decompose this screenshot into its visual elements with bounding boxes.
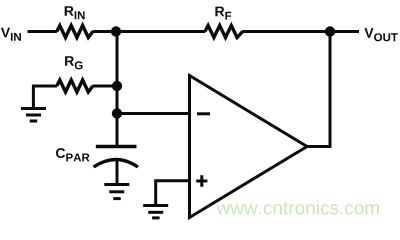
label R_F xyxy=(215,7,231,20)
wire R_G left lead and drop to ground xyxy=(33,86,57,108)
node B xyxy=(325,26,335,36)
label C_PAR xyxy=(56,148,90,161)
wire node D to op-amp inverting input xyxy=(117,112,190,115)
watermark www.cntronics.com xyxy=(217,201,379,215)
ground (below C_PAR) xyxy=(104,185,129,199)
node A xyxy=(111,26,121,36)
wire R_G to node C xyxy=(93,85,119,88)
wire capacitor to ground xyxy=(116,159,119,185)
wire V_IN to R_IN xyxy=(28,30,58,33)
wire R_F to node B xyxy=(242,30,330,33)
label R_IN xyxy=(65,6,85,19)
wire non-inverting input to ground xyxy=(156,181,190,205)
wire op-amp output to node B xyxy=(306,32,330,147)
ground (non-inverting input) xyxy=(143,206,168,218)
wire vertical node A down to capacitor xyxy=(116,32,119,147)
op-amp U1 xyxy=(190,76,308,218)
label V_IN xyxy=(1,28,21,41)
capacitor C_PAR xyxy=(94,147,138,168)
resistor R_F xyxy=(205,26,243,38)
label R_G xyxy=(65,56,82,69)
label V_OUT xyxy=(364,28,397,41)
resistor R_G xyxy=(57,80,93,92)
wire node A to R_F xyxy=(117,30,205,33)
node C (R_G junction) xyxy=(112,81,122,91)
wire R_IN to node A xyxy=(93,30,119,33)
ground (left, R_G) xyxy=(21,109,46,122)
wire node B to V_OUT xyxy=(330,30,359,33)
node D (inverting input junction) xyxy=(112,108,122,118)
resistor R_IN xyxy=(57,26,93,38)
